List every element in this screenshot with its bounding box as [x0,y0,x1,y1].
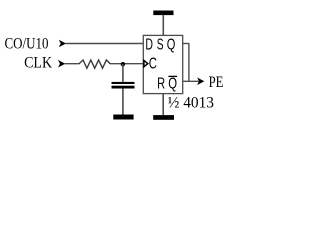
svg-text:Q: Q [167,36,176,53]
svg-text:C: C [149,56,157,73]
junction node [121,62,125,66]
svg-text:½ 4013: ½ 4013 [168,95,214,112]
svg-text:CO/U10: CO/U10 [5,35,49,52]
wire Q stub [183,43,190,45]
svg-text:Q: Q [168,75,177,92]
input arrow CLK [58,60,65,68]
resistor R1 [79,60,110,68]
input arrow CO/U10 [59,40,66,48]
wire junction to capacitor [122,64,124,82]
clock input wedge [144,60,148,66]
wire D input [66,43,144,45]
Qbar overbar [168,75,177,77]
flip-flop U1 box (1/2 4013) [143,35,182,93]
ground bar right [153,115,174,120]
capacitor C1 [112,82,135,89]
svg-text:D: D [145,36,153,53]
output arrow PE [197,78,204,86]
wire capacitor to ground [122,89,124,116]
svg-text:R: R [157,75,165,92]
wire Vdd to S pin [162,15,164,36]
wire CLK to resistor [65,63,80,65]
wire Qbar to PE [183,80,200,82]
svg-text:S: S [157,36,164,53]
wire resistor to C pin [110,63,144,65]
wire Q down [188,44,190,82]
svg-text:CLK: CLK [24,54,52,71]
Vdd supply bar top [153,11,173,16]
ground bar left [113,115,133,120]
svg-text:PE: PE [209,74,224,91]
wire box bottom to ground [162,93,164,115]
